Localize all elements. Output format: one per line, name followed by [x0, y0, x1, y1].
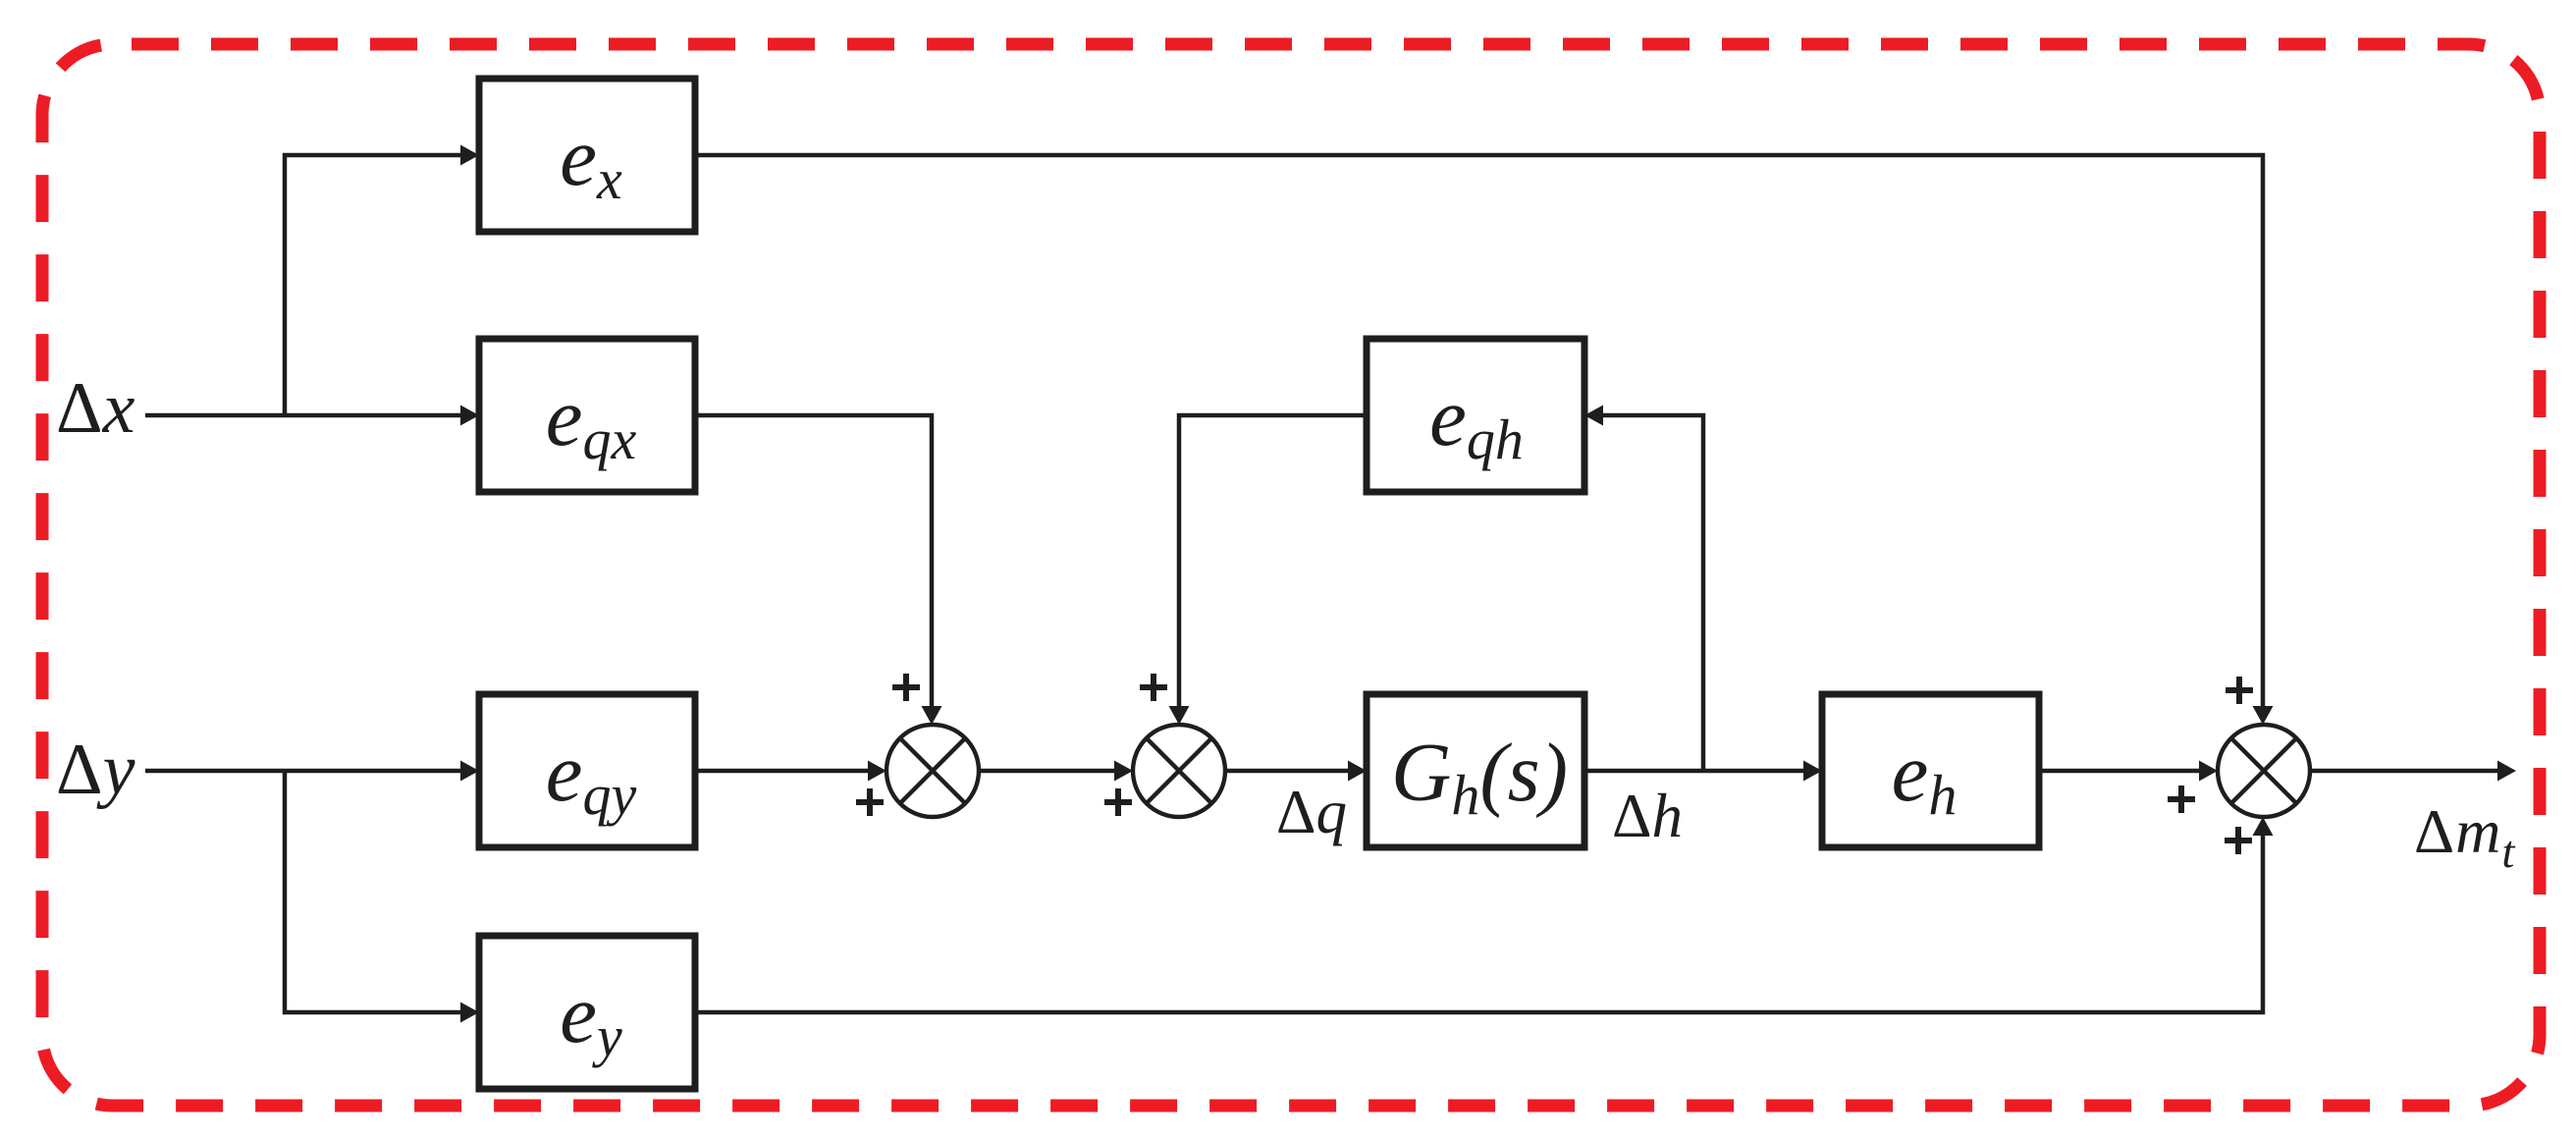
wire e_y output long bottom line to S3: [695, 834, 2263, 1012]
block e_h: [1822, 694, 2039, 847]
arrow into S3 top: [2253, 706, 2274, 725]
arrow into S3 bottom: [2253, 817, 2274, 836]
wire Δx branch up to e_x: [285, 155, 461, 415]
svg-text:Δmt: Δmt: [2414, 796, 2515, 878]
arrow into S2 top: [1169, 706, 1190, 725]
arrow into e_qh right side: [1584, 406, 1603, 426]
wire S3 output Δm_t: [2310, 769, 2499, 774]
block e_qx: [479, 339, 695, 492]
plus sign S3 bottom: [2225, 827, 2252, 854]
arrow into e_qx: [460, 406, 479, 426]
arrow into S3 left: [2199, 761, 2218, 782]
plus sign S1 left: [856, 788, 884, 816]
arrow into e_x: [460, 145, 479, 166]
svg-text:Δh: Δh: [1612, 782, 1683, 850]
wire e_x output long top line to S3: [695, 155, 2263, 707]
arrow output Δm_t: [2497, 761, 2516, 782]
arrow into e_h: [1803, 761, 1822, 782]
wire Δy input: [145, 769, 461, 774]
block e_qy: [479, 694, 695, 847]
summing junction S3: [2218, 725, 2310, 817]
plus sign S3 left: [2168, 786, 2195, 813]
wire S2 to Gh (Δq): [1225, 769, 1350, 774]
summing junction S2: [1133, 725, 1225, 817]
block e_y: [479, 936, 695, 1089]
plus sign S3 top: [2226, 677, 2253, 704]
wire Δy branch down to e_y: [285, 771, 461, 1012]
arrow into e_qy: [460, 761, 479, 782]
wire e_h to S3: [2039, 769, 2201, 774]
arrow into S1 top: [922, 706, 942, 725]
wire e_qh output to S2 top: [1179, 415, 1367, 707]
arrow into Gh: [1348, 761, 1367, 782]
block e_qh: [1367, 339, 1584, 492]
plus sign S2 top: [1140, 674, 1167, 701]
wire S1 to S2: [979, 769, 1116, 774]
plus sign S2 left: [1104, 788, 1132, 816]
svg-text:Δq: Δq: [1276, 778, 1347, 846]
wire e_qx output to S1 top: [695, 415, 932, 707]
wire feedback Δh up to e_qh: [1601, 415, 1703, 771]
arrow into e_y: [460, 1003, 479, 1023]
block e_x: [479, 79, 695, 232]
wire Gh to e_h (Δh): [1584, 769, 1805, 774]
wire e_qy output to S1 left: [695, 769, 870, 774]
arrow into S1 left: [868, 761, 886, 782]
summing junction S1: [886, 725, 979, 817]
block Gh(s): [1367, 694, 1584, 847]
svg-text:Gh(s): Gh(s): [1391, 727, 1568, 827]
svg-text:Δy: Δy: [56, 730, 135, 810]
arrow into S2 left: [1114, 761, 1133, 782]
wire Δx input: [145, 413, 461, 418]
plus sign S1 top: [892, 674, 920, 701]
svg-text:Δx: Δx: [56, 368, 135, 449]
